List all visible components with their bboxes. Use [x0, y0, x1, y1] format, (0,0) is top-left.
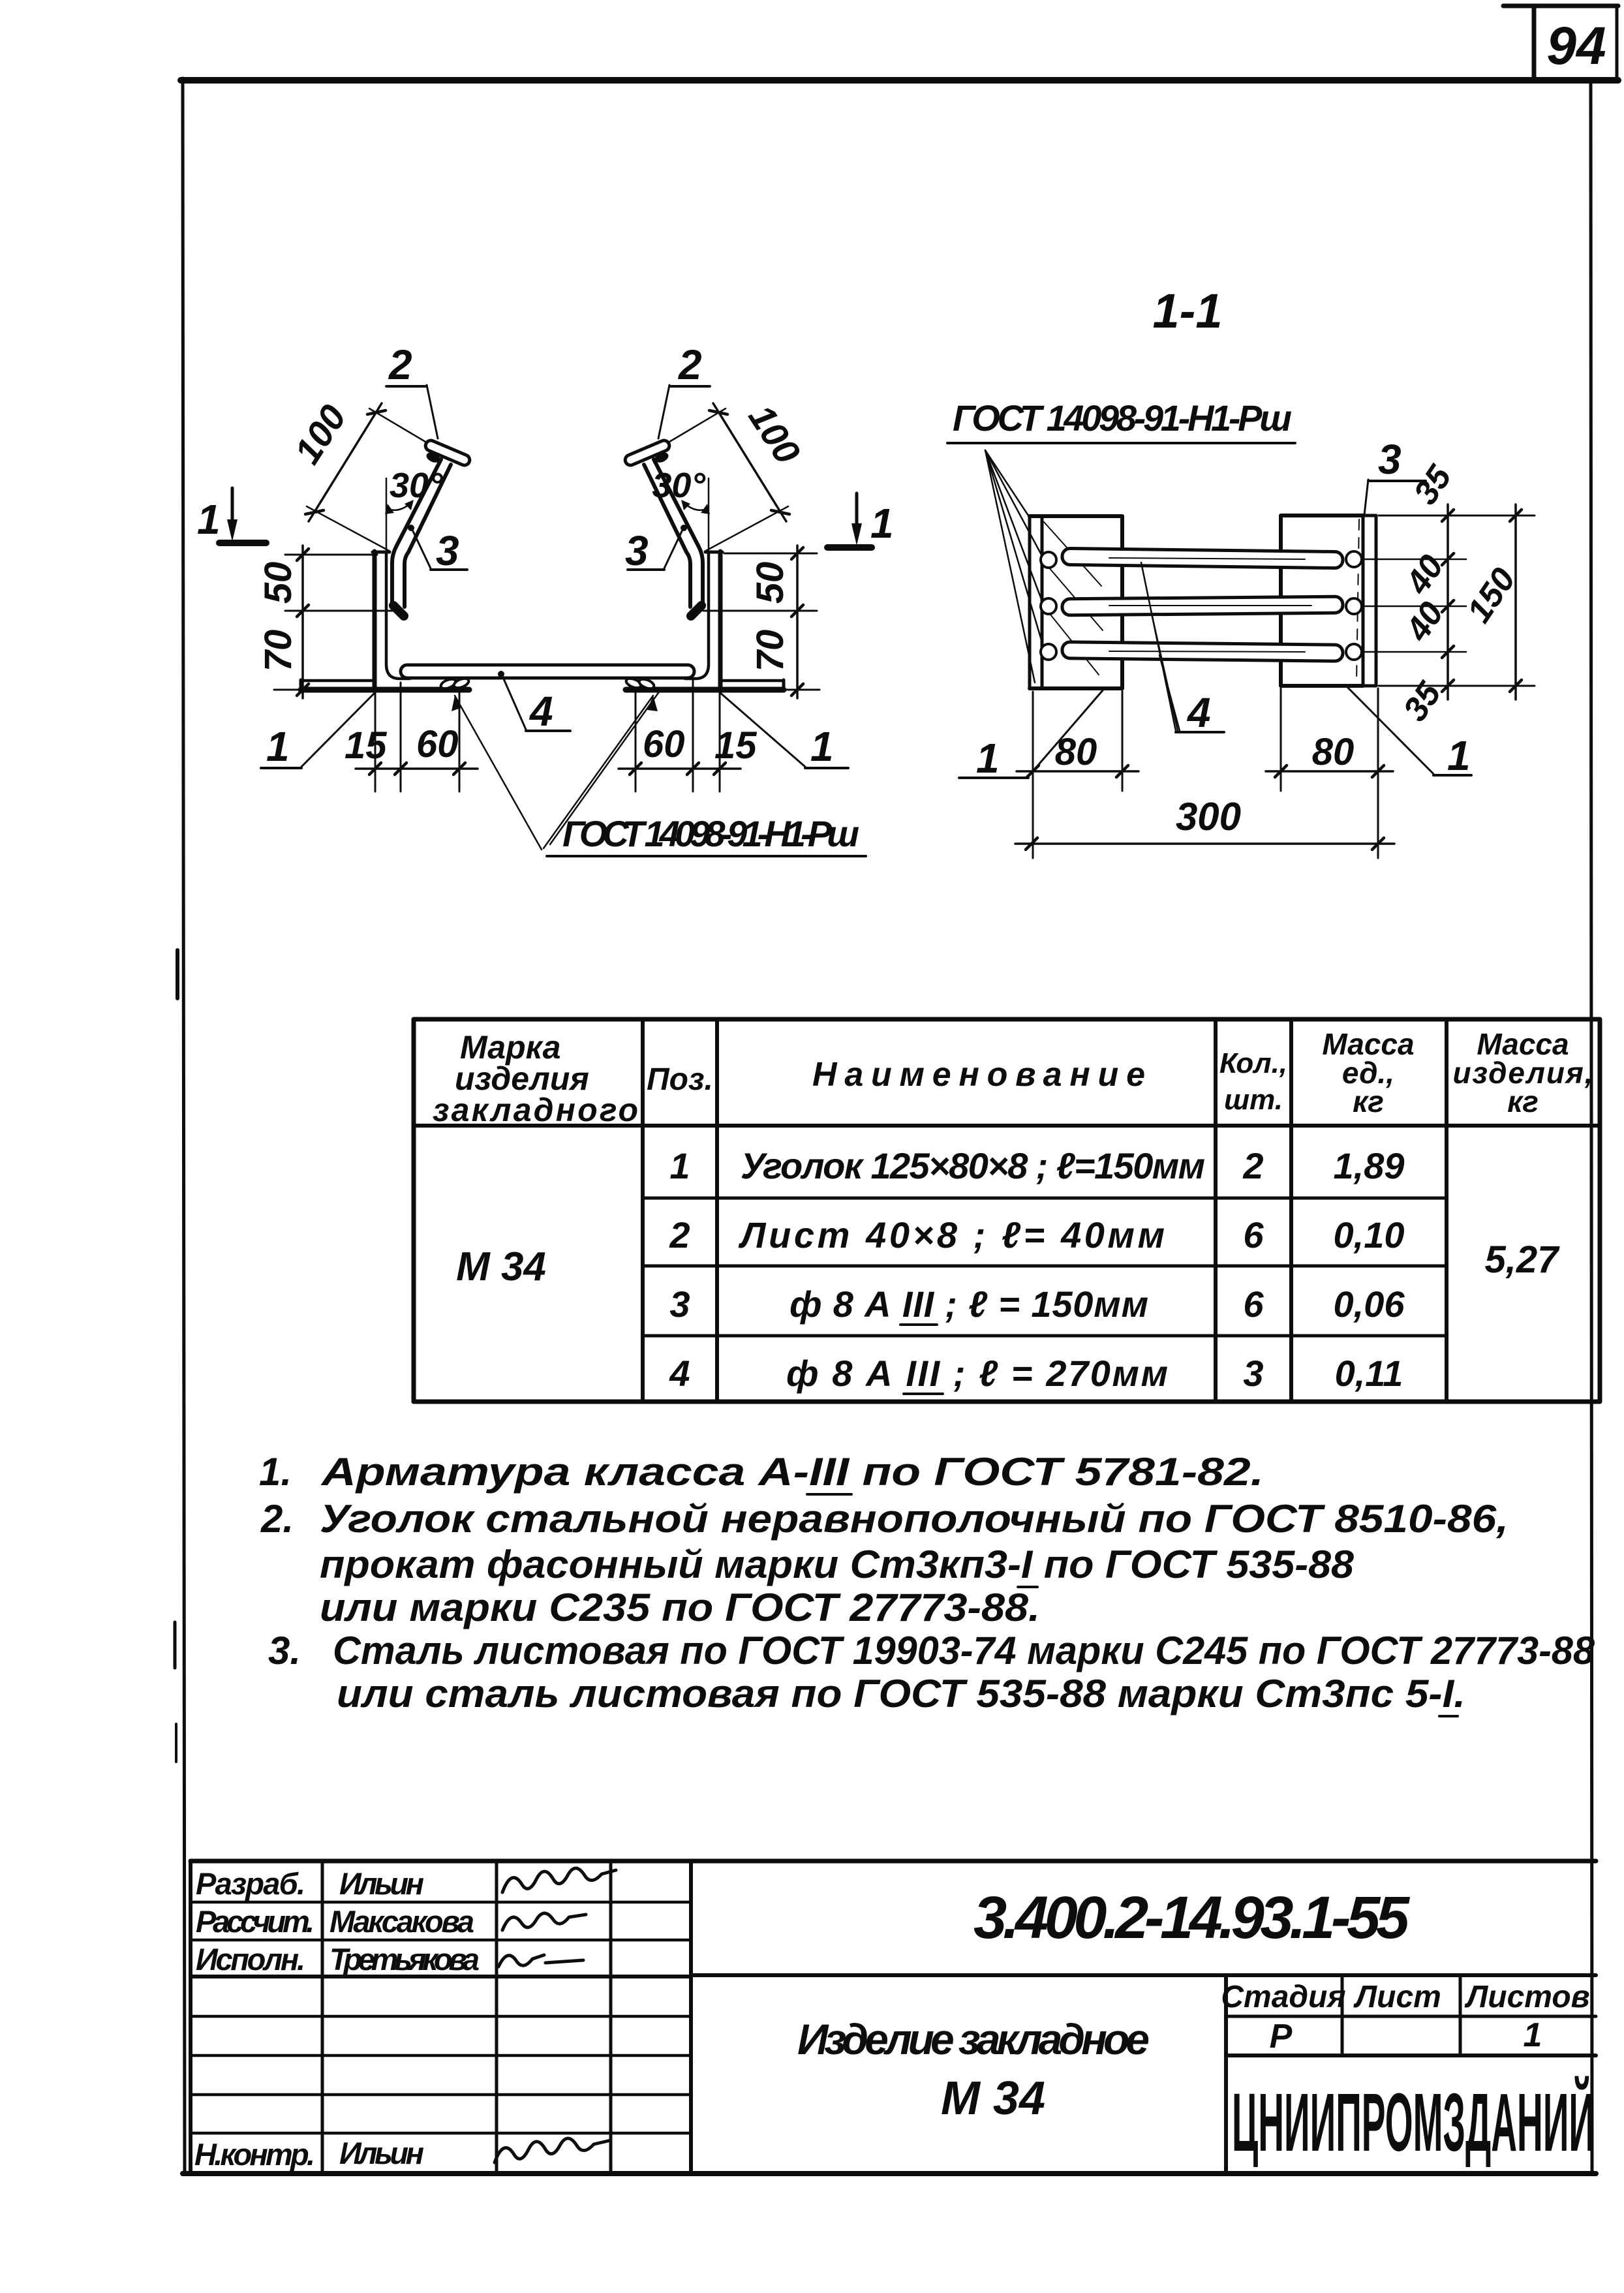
svg-text:50: 50: [257, 562, 299, 604]
frame bottom border: [183, 2171, 1596, 2176]
svg-text:ЦНИИПРОМЗДАНИЙ: ЦНИИПРОМЗДАНИЙ: [1232, 2076, 1595, 2168]
anchor rod item3 left: [392, 459, 451, 607]
scan mark left margin 2: [174, 1622, 177, 1668]
svg-text:Третьякова: Третьякова: [329, 1942, 480, 1977]
weld rod to right leg: [691, 606, 701, 616]
header Marka izdeliya zakladnogo: [433, 1029, 638, 1128]
svg-text:15: 15: [345, 724, 387, 767]
angle item1 right: leg and flange: [626, 551, 784, 690]
svg-text:3: 3: [436, 527, 459, 574]
svg-text:Кол.,: Кол.,: [1219, 1047, 1287, 1079]
svg-text:М 34: М 34: [941, 2072, 1045, 2125]
row2: [669, 1214, 1404, 1255]
svg-text:40: 40: [1398, 595, 1451, 648]
dim 30deg right: [652, 466, 710, 556]
svg-text:5,27: 5,27: [1485, 1239, 1561, 1281]
row1: [669, 1145, 1404, 1186]
svg-text:кг: кг: [1353, 1085, 1384, 1118]
svg-text:Наименование: Наименование: [812, 1056, 1145, 1094]
svg-text:30°: 30°: [390, 466, 443, 505]
svg-text:М 34: М 34: [456, 1244, 546, 1289]
svg-text:0,11: 0,11: [1335, 1353, 1403, 1394]
svg-text:2: 2: [669, 1214, 690, 1255]
svg-text:Уголок стальной неравнополоч: Уголок стальной неравнополочный по ГОСТ …: [320, 1497, 1509, 1541]
svg-text:1: 1: [976, 735, 1000, 782]
stamp divider line: [691, 1973, 1596, 1977]
plate item2 right: [624, 439, 671, 467]
dim 100 left: [286, 397, 425, 551]
dim 150 section: [1460, 504, 1524, 700]
svg-text:3: 3: [1378, 436, 1402, 483]
stadia list listov box: [1226, 1975, 1596, 2172]
sheet number box top line: [1503, 4, 1618, 8]
svg-text:3.400.2-14.93.1-55: 3.400.2-14.93.1-55: [973, 1885, 1411, 1951]
weld rod to left leg: [393, 606, 404, 616]
svg-text:2: 2: [678, 341, 702, 388]
rod item4 top: [1062, 548, 1343, 568]
svg-text:Максакова: Максакова: [329, 1904, 474, 1939]
dim 50-70 right: [703, 546, 820, 698]
svg-text:3: 3: [1243, 1353, 1263, 1394]
svg-text:4: 4: [529, 688, 553, 735]
table header line: [414, 1124, 1600, 1128]
bar item4 front: [401, 665, 694, 678]
table verticals: [643, 1019, 1447, 1402]
svg-text:2.: 2.: [260, 1497, 294, 1541]
dim 80 left section: [1017, 691, 1139, 858]
svg-text:шт.: шт.: [1224, 1084, 1283, 1116]
svg-text:35: 35: [1407, 458, 1460, 511]
svg-text:1: 1: [1447, 732, 1471, 779]
svg-text:4: 4: [1186, 689, 1211, 736]
svg-text:300: 300: [1176, 795, 1241, 839]
row4: [669, 1353, 1403, 1394]
svg-text:1: 1: [1524, 2016, 1542, 2054]
svg-text:Лист 40×8 ; ℓ= 40мм: Лист 40×8 ; ℓ= 40мм: [738, 1214, 1165, 1255]
dim 300 section: [1015, 795, 1394, 850]
left angle flange section: [1030, 516, 1122, 688]
note 3 line 2: [337, 1672, 1465, 1716]
svg-text:прокат фасонный марки Ст3кп: прокат фасонный марки Ст3кп3-I по ГОСТ 5…: [320, 1543, 1355, 1586]
svg-text:3.: 3.: [268, 1629, 301, 1672]
dim 15-60 right: [619, 680, 757, 792]
leader item2 left: [386, 341, 438, 439]
leader item2 right: [658, 341, 710, 439]
stamp left column verticals: [191, 1861, 691, 2172]
svg-text:1: 1: [197, 496, 221, 543]
leader item3 left: [408, 525, 467, 574]
NOTES: [259, 1450, 1595, 1716]
leader item1 right: [720, 692, 848, 770]
note 2 line 2: [320, 1543, 1355, 1587]
row Razrab: [196, 1866, 616, 1901]
svg-text:ГОСТ 14098-91-Н1-Рш: ГОСТ 14098-91-Н1-Рш: [953, 397, 1292, 439]
right angle flange section: [1281, 516, 1363, 686]
TITLE-BLOCK: [191, 1861, 1596, 2172]
dashed leader in right block: [1356, 519, 1359, 683]
svg-text:Н.контр.: Н.контр.: [194, 2137, 315, 2172]
svg-text:30°: 30°: [652, 466, 705, 505]
anchor rod item3 right: [644, 459, 703, 607]
dim 35-40-40-35 section: [1363, 458, 1535, 728]
row N kontr: [194, 2136, 611, 2172]
row3: [669, 1284, 1405, 1325]
leader item1 left section: [959, 690, 1103, 782]
svg-text:закладного: закладного: [433, 1092, 638, 1128]
svg-text:Изделие закладное: Изделие закладное: [797, 2015, 1150, 2063]
svg-text:2: 2: [1242, 1145, 1263, 1186]
svg-text:1: 1: [266, 723, 290, 770]
note 3 line 1: [268, 1629, 1595, 1672]
svg-text:6: 6: [1243, 1284, 1264, 1325]
svg-text:70: 70: [257, 630, 299, 672]
svg-text:Ильин: Ильин: [339, 2136, 424, 2170]
svg-text:Рассчит.: Рассчит.: [196, 1904, 314, 1939]
svg-text:40: 40: [1398, 548, 1451, 601]
svg-text:Лист: Лист: [1353, 1980, 1441, 2014]
dim 15-60 left: [345, 683, 478, 792]
svg-text:Уголок 125×80×8 ; ℓ=150мм: Уголок 125×80×8 ; ℓ=150мм: [741, 1145, 1205, 1186]
svg-text:2: 2: [388, 341, 412, 388]
weld designation front: [452, 691, 866, 856]
svg-text:70: 70: [749, 630, 791, 672]
weld bead bar to right angle: [625, 677, 656, 690]
leader item3 right: [625, 525, 687, 574]
dim 30deg left: [385, 466, 443, 556]
svg-text:1: 1: [669, 1145, 690, 1186]
leader item1 left: [261, 692, 375, 770]
row Rasschit: [196, 1904, 586, 1939]
svg-text:150: 150: [1460, 561, 1524, 629]
svg-text:60: 60: [643, 723, 685, 765]
table outline: [414, 1019, 1600, 1402]
note 1: [259, 1450, 1264, 1494]
svg-text:15: 15: [714, 724, 757, 767]
stamp top line: [191, 1859, 1596, 1864]
leader item4 front: [498, 671, 570, 735]
right angle leg section: [1363, 516, 1376, 686]
svg-text:35: 35: [1396, 675, 1449, 728]
table row lines: [643, 1198, 1447, 1336]
svg-text:100: 100: [741, 397, 808, 471]
sheet number box left line: [1532, 6, 1537, 80]
svg-text:3: 3: [625, 527, 649, 574]
svg-text:Р: Р: [1270, 2018, 1293, 2055]
sheet number box right line: [1616, 6, 1619, 80]
svg-text:1: 1: [870, 500, 894, 547]
weld bead bar to left angle: [440, 677, 470, 690]
SPEC-TABLE: [414, 1019, 1600, 1402]
dim 100 right: [669, 397, 808, 551]
svg-text:1: 1: [810, 723, 834, 770]
svg-text:1-1: 1-1: [1153, 284, 1223, 338]
frame right border: [1591, 82, 1592, 2173]
svg-text:Стадия: Стадия: [1221, 1980, 1345, 2014]
svg-text:0,06: 0,06: [1334, 1284, 1405, 1325]
note 2 line 1: [260, 1497, 1509, 1541]
svg-text:Листов: Листов: [1464, 1980, 1589, 2014]
left angle leg section: [1030, 516, 1042, 688]
frame left border: [183, 78, 185, 2174]
svg-text:60: 60: [416, 723, 459, 765]
svg-text:ф 8 А III ; ℓ = 150мм: ф 8 А III ; ℓ = 150мм: [789, 1284, 1148, 1325]
rod item4 bottom: [1062, 642, 1343, 662]
plate item2 left: [424, 439, 472, 467]
svg-text:50: 50: [749, 562, 791, 604]
svg-text:100: 100: [286, 397, 354, 471]
VIEW-FRONT: [197, 341, 894, 856]
svg-text:Исполн.: Исполн.: [196, 1942, 305, 1977]
svg-text:или сталь листовая по ГОСТ: или сталь листовая по ГОСТ 535-88 марки …: [337, 1672, 1465, 1716]
svg-text:ф 8 А III ; ℓ = 270мм: ф 8 А III ; ℓ = 270мм: [786, 1353, 1168, 1394]
svg-text:94: 94: [1546, 16, 1606, 76]
svg-text:ГОСТ 14098-91-Н1-Рш: ГОСТ 14098-91-Н1-Рш: [562, 813, 859, 854]
svg-text:0,10: 0,10: [1334, 1214, 1405, 1255]
weld designation section: [947, 397, 1295, 683]
header Kol sht: [1219, 1047, 1287, 1116]
svg-text:или марки С235 по ГОСТ 2777: или марки С235 по ГОСТ 27773-88.: [320, 1586, 1040, 1629]
svg-text:1.: 1.: [259, 1450, 292, 1494]
angle item1 left: leg and flange: [301, 551, 469, 690]
weld circles right: [1346, 551, 1362, 660]
svg-text:Поз.: Поз.: [647, 1062, 713, 1097]
leader lines inside left flange: [1044, 522, 1103, 675]
svg-text:80: 80: [1312, 731, 1355, 773]
svg-text:кг: кг: [1507, 1085, 1539, 1118]
svg-text:3: 3: [669, 1284, 690, 1325]
svg-text:1,89: 1,89: [1334, 1145, 1405, 1186]
svg-text:6: 6: [1243, 1214, 1264, 1255]
header Massa izdeliya kg: [1453, 1027, 1593, 1118]
dim 80 right section: [1266, 688, 1393, 858]
leader item3 section: [1364, 436, 1426, 515]
weld circles left: [1041, 552, 1056, 660]
scan mark left margin: [176, 950, 179, 998]
row Ispoln: [196, 1942, 583, 1977]
dim 50-70 left: [257, 546, 401, 698]
rod axis lines: [1109, 558, 1311, 652]
svg-text:Ильин: Ильин: [339, 1866, 424, 1901]
leader item4 section: [1141, 562, 1224, 736]
svg-text:Сталь листовая по ГОСТ 1990: Сталь листовая по ГОСТ 19903-74 марки С2…: [333, 1629, 1595, 1672]
leader item1 right section: [1347, 687, 1471, 779]
svg-text:4: 4: [669, 1353, 690, 1394]
frame top border: [181, 77, 1618, 84]
section mark 1 left: [197, 488, 266, 543]
svg-text:Арматура класса А-III по Г: Арматура класса А-III по ГОСТ 5781-82.: [320, 1450, 1264, 1494]
section mark 1 right: [827, 493, 894, 547]
VIEW-SECTION: [947, 284, 1535, 858]
header Massa ed kg: [1322, 1027, 1414, 1118]
svg-text:Разраб.: Разраб.: [196, 1866, 305, 1901]
rod item4 middle: [1062, 596, 1343, 615]
stamp row lines: [191, 1902, 691, 2133]
scan mark left margin 3: [175, 1724, 177, 1762]
